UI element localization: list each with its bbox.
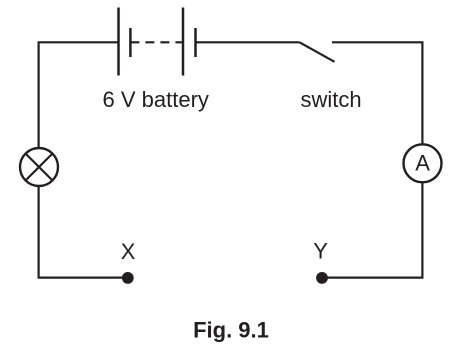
svg-text:switch: switch — [301, 87, 362, 112]
lamp L1 circle — [20, 148, 58, 186]
switch S1 open blade — [300, 42, 335, 62]
svg-text:X: X — [121, 239, 136, 264]
svg-text:Y: Y — [313, 239, 328, 264]
wire lamp down to bottom-left corner and to node X — [39, 186, 128, 277]
wire ammeter down to bottom-right corner and to node Y — [322, 183, 422, 278]
lamp L1 cross stroke 2 — [26, 154, 53, 181]
wire switch to top-right corner down to ammeter — [332, 42, 422, 144]
wire battery to switch — [196, 41, 300, 43]
ammeter A1 circle — [404, 144, 442, 182]
lamp L1 cross stroke 1 — [26, 154, 53, 181]
battery B1 long plate (left cell, positive) — [117, 8, 120, 76]
wire dashed link between battery cells — [130, 41, 183, 43]
svg-text:6 V battery: 6 V battery — [103, 87, 209, 112]
battery B1 short plate (left cell, negative) — [129, 28, 132, 57]
svg-text:A: A — [415, 150, 430, 175]
svg-text:Fig. 9.1: Fig. 9.1 — [193, 318, 269, 343]
node X terminal dot — [122, 272, 134, 284]
wire battery to top-left corner down to lamp — [39, 42, 119, 147]
battery B2 long plate (right cell, positive) — [182, 8, 185, 76]
node Y terminal dot — [316, 272, 328, 284]
battery B2 short plate (right cell, negative) — [194, 28, 197, 57]
